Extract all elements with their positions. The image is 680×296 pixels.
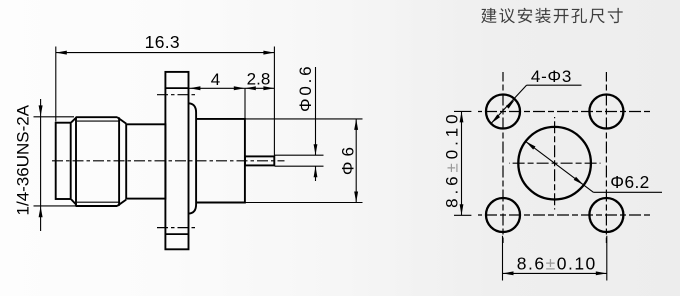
hole pattern centerline vertical right xyxy=(605,72,607,243)
flange hole centerline bottom xyxy=(157,227,197,229)
svg-text:4: 4 xyxy=(211,70,220,89)
title xyxy=(481,8,623,23)
hole pattern centerline vertical left xyxy=(502,72,504,243)
dimension 8.6 vertical xyxy=(454,110,471,112)
svg-text:4-Φ3: 4-Φ3 xyxy=(531,67,572,86)
flange inner line bottom xyxy=(165,233,189,235)
svg-text:Φ6.2: Φ6.2 xyxy=(610,172,649,192)
flange (side view) xyxy=(165,72,188,249)
body cylinder xyxy=(196,119,245,203)
center hole crosshair vertical xyxy=(554,117,556,210)
svg-text:Φ6: Φ6 xyxy=(339,142,358,175)
center hole crosshair horizontal xyxy=(509,162,601,164)
main centerline xyxy=(52,160,285,162)
center pin xyxy=(245,156,274,165)
hole pattern centerline horizontal bottom xyxy=(478,214,652,216)
dimension 4 xyxy=(165,87,245,89)
svg-text:8.6±0.10: 8.6±0.10 xyxy=(517,254,597,274)
thread OD dimension line xyxy=(40,99,42,231)
mounting hole top-right xyxy=(589,95,623,129)
dimension 2.8 xyxy=(245,87,275,89)
dimension phi6 xyxy=(245,118,363,120)
threaded section xyxy=(76,116,118,118)
cap chamfers xyxy=(71,118,76,123)
dimension 16.3 xyxy=(55,47,57,122)
diameter line across center hole xyxy=(526,141,594,192)
mounting hole top-left xyxy=(486,95,520,129)
dimension phi0.6 leader and arrows xyxy=(275,154,324,156)
center hole phi6.2 xyxy=(518,127,591,200)
left end cap xyxy=(56,123,71,199)
hole pattern centerline horizontal top xyxy=(478,111,652,113)
svg-text:8.6±0.10: 8.6±0.10 xyxy=(442,111,461,208)
svg-text:1/4-36UNS-2A: 1/4-36UNS-2A xyxy=(13,104,32,215)
dimension 8.6 horizontal xyxy=(502,236,504,281)
flange hole centerline top xyxy=(157,94,197,96)
svg-text:2.8: 2.8 xyxy=(247,70,271,89)
neck section xyxy=(126,124,165,198)
mounting hole bottom-left xyxy=(486,198,520,232)
svg-text:Φ0.6: Φ0.6 xyxy=(296,64,315,112)
gasket bulge xyxy=(189,103,196,213)
extension line body face xyxy=(244,88,246,118)
mounting hole bottom-right xyxy=(589,198,623,232)
thread minor diameter lines xyxy=(77,120,119,122)
diameter line across top-left hole xyxy=(491,85,527,123)
flange inner line top xyxy=(165,87,189,89)
svg-text:16.3: 16.3 xyxy=(145,32,180,52)
